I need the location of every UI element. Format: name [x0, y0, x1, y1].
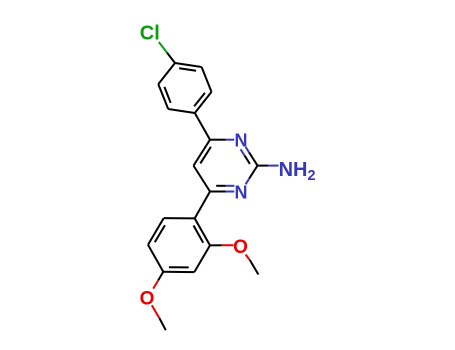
- top ring bond T6-T1 main: [195, 92, 212, 113]
- bond N1=C2 main (N side): [246, 147, 250, 153]
- bond B2-O2' (O side): [222, 244, 234, 246]
- top ring bond T6-T1 inner: [194, 93, 205, 106]
- svg-text:N: N: [235, 183, 248, 203]
- bottom ring bond B4-B5: [148, 245, 163, 272]
- bond N1=C2 inner (C side): [245, 156, 250, 164]
- bond B4-O4' (O side): [153, 280, 158, 288]
- bond C2-NH2 (C side): [258, 165, 269, 167]
- bond B2-O2' (C side): [210, 244, 222, 246]
- bottom ring bond B5=B6 main: [148, 218, 164, 245]
- bond O4'-CH3 (O side): [152, 305, 160, 318]
- svg-text:Cl: Cl: [140, 23, 160, 45]
- bottom ring bond B1=B2 main: [195, 218, 210, 245]
- bond C2-NH2 (N side): [268, 165, 279, 167]
- bond C6-N1 (C side): [210, 139, 226, 141]
- svg-text:N: N: [235, 131, 248, 151]
- bottom ring bond B6-B1: [164, 217, 195, 219]
- top ring bond T4-T5 inner: [179, 68, 196, 71]
- bond C5=C6 main: [194, 140, 211, 166]
- bond N3=C4 main (N side): [226, 191, 235, 193]
- bottom ring bond B3=B4 inner: [169, 266, 189, 268]
- svg-text:O: O: [140, 289, 155, 310]
- bond C4-C5: [194, 166, 211, 192]
- bottom ring bond B1=B2 inner: [194, 226, 204, 243]
- top ring bond T1-T2: [168, 109, 195, 113]
- bond O2'-CH3 (C side): [250, 260, 259, 275]
- bottom ring bond B5=B6 inner: [155, 225, 165, 242]
- top ring bond T2-T3 main: [158, 84, 168, 109]
- bond ipso-C6 biaryl: [195, 113, 210, 140]
- bond C-Cl (C side): [167, 53, 175, 64]
- top ring bond T3-T4: [158, 63, 175, 84]
- bond C4-B1 biaryl: [195, 192, 210, 219]
- top ring bond T5-T6: [202, 67, 212, 92]
- bond B4-O4' (C side): [158, 272, 163, 281]
- bond N3=C4 inner (C side): [216, 185, 225, 187]
- bond C2-N3 (N side): [246, 179, 250, 185]
- top ring bond T2-T3 inner: [164, 87, 170, 103]
- bond N1=C2 inner (N side): [241, 149, 245, 155]
- bond C-Cl (Cl side): [159, 42, 167, 53]
- bond O4'-CH3 (C side): [159, 318, 166, 330]
- bond O2'-CH3 (O side): [246, 255, 250, 260]
- bond C5=C6 inner: [200, 147, 211, 164]
- bond N1=C2 main (C side): [249, 153, 257, 166]
- bottom ring bond B3=B4 main: [163, 271, 194, 273]
- top ring bond T4-T5 main: [175, 63, 202, 67]
- bond C2-N3 (C side): [249, 166, 257, 179]
- bond C6-N1 (N side): [226, 139, 235, 141]
- bond N3=C4 inner (N side): [226, 185, 235, 187]
- svg-text:O: O: [233, 237, 248, 258]
- bond N3=C4 main (C side): [210, 191, 226, 193]
- bottom ring bond B2-B3: [194, 245, 210, 272]
